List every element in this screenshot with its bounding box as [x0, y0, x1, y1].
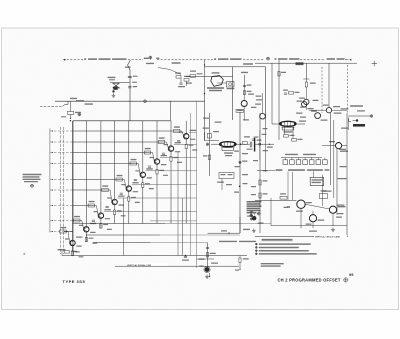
wire supply rail	[348, 115, 370, 117]
capacitor Cs5	[134, 179, 137, 180]
label R97 net	[235, 270, 239, 271]
resistor Re66	[156, 170, 164, 175]
wire tap 4	[50, 163, 140, 174]
transistor Q150	[302, 102, 307, 107]
supply dark tag	[353, 124, 365, 127]
wire drop	[305, 87, 307, 99]
wire vertical x279	[278, 60, 280, 140]
card upper rail	[271, 225, 347, 227]
wire long vertical x190	[190, 113, 192, 256]
transistor Q64	[126, 186, 131, 191]
wire mid vertical x123	[123, 198, 125, 256]
network input term	[58, 249, 78, 256]
label mid texts	[203, 118, 222, 133]
node dark blob	[250, 214, 253, 220]
wire rail y223	[73, 223, 271, 225]
stray mark	[24, 253, 26, 254]
wire y144 onward	[255, 143, 274, 145]
deflection bar	[254, 138, 255, 152]
ground gnd2	[70, 114, 72, 121]
wire collector column 3	[100, 121, 102, 213]
resistor R149	[278, 72, 286, 77]
wire bias branch	[110, 82, 130, 84]
node ring x240a	[239, 161, 241, 163]
note line 4	[255, 253, 316, 255]
resistor R68	[173, 126, 180, 132]
note line 3	[255, 250, 308, 252]
wire rail y235	[86, 234, 240, 236]
node dark junction	[353, 119, 359, 121]
node supply end	[370, 115, 373, 118]
wire emitter drop 8	[170, 152, 172, 224]
wire q330 tie	[322, 145, 347, 147]
transistor Q66 leads	[155, 159, 158, 164]
resistor R95	[206, 253, 215, 258]
wire rail y221	[150, 220, 197, 222]
wire decoupling tie	[158, 68, 181, 75]
wire tap 1	[50, 130, 183, 135]
wire q cluster ties	[305, 204, 333, 228]
label CH2 PROGRAMMED OFFSET	[278, 277, 348, 282]
wire collector column 4	[114, 121, 116, 199]
wire emitter drop 2	[85, 232, 87, 242]
wire collector column 7	[156, 121, 158, 159]
transistor Q63 leads	[113, 200, 116, 205]
label gate feed block	[247, 201, 262, 213]
wire rail y200	[255, 199, 297, 201]
wire horiz y63 right	[303, 62, 357, 64]
wire mid vertical x182	[182, 198, 184, 256]
wire emitter drop 6	[142, 178, 144, 224]
label polarity row	[276, 169, 330, 171]
bracket mark	[349, 119, 352, 122]
label gate current note	[23, 174, 42, 183]
wire box edge ext	[265, 120, 267, 172]
wire stage out 7	[174, 144, 197, 146]
resistor R341	[280, 193, 287, 199]
wire taps join	[205, 132, 220, 141]
wire stage out 5	[146, 170, 197, 172]
resistor R44	[67, 112, 81, 115]
capacitor Cs2	[92, 220, 95, 221]
resistor Re62	[100, 224, 108, 229]
resistor termination row	[281, 158, 327, 165]
wire stage out 8	[189, 131, 197, 133]
label R40 over branch	[108, 77, 116, 81]
wire stage out 3	[117, 197, 196, 199]
wire wafer tie	[217, 82, 226, 84]
label R42	[85, 103, 94, 104]
ground gnd3	[205, 273, 210, 279]
wire tap 6	[50, 189, 112, 201]
wire q163 ties	[306, 105, 347, 111]
resistor Re60	[71, 251, 79, 256]
transistor Q67	[168, 146, 173, 151]
delay driver T301	[280, 121, 297, 130]
wire T301 leads	[272, 123, 305, 125]
resistor R65	[130, 159, 137, 165]
node circled ref	[31, 184, 34, 187]
wire drop to cluster	[70, 101, 72, 111]
label T150 texts	[323, 149, 347, 192]
wire drop x292	[292, 172, 294, 200]
wire tap 3	[50, 152, 154, 161]
label top x244	[241, 72, 248, 73]
resistor R67	[158, 137, 165, 143]
label row values	[285, 154, 316, 155]
resistor R40B	[184, 76, 190, 81]
wire emitter drop 1	[72, 246, 74, 256]
resistor R61	[74, 216, 81, 222]
label Q346	[306, 220, 325, 225]
transistor Q65 leads	[141, 172, 144, 177]
node ring right	[259, 130, 261, 160]
wire emitter drop 5	[128, 192, 130, 224]
label R347	[336, 217, 342, 218]
wire long vertical x240	[239, 112, 241, 233]
bracket under T201	[221, 148, 234, 157]
transistor Q346	[309, 215, 316, 222]
wire emitter drop 7	[156, 165, 158, 224]
capacitor C149	[283, 90, 288, 95]
transistor Q61	[84, 227, 89, 232]
label SIGNAL PICKOFF	[275, 58, 300, 60]
capacitor C96 electrolytic	[204, 266, 210, 272]
ground gnd q347	[331, 228, 335, 232]
resistor R306	[292, 139, 303, 142]
label Q60 value	[65, 237, 84, 258]
label vertical circuit card	[314, 235, 347, 239]
transistor Q347	[329, 206, 336, 213]
resistor R60	[60, 227, 66, 233]
transistor Q61 leads	[85, 227, 88, 232]
box ladder top edge	[73, 120, 171, 122]
note line 2	[255, 246, 298, 248]
card boundary bottom	[255, 235, 348, 237]
diode pair D40	[113, 83, 120, 88]
wire vertical x209	[209, 113, 211, 176]
resistor R151	[289, 92, 300, 95]
transistor Q63	[112, 199, 117, 204]
wire emitter drop 4	[114, 205, 116, 224]
delay line box right	[265, 67, 267, 120]
label EDGE CURRENT SELECTOR	[84, 58, 127, 60]
wire collector column 1	[72, 121, 74, 240]
svg-text:9⁄5: 9⁄5	[349, 273, 353, 277]
wire stage out 6	[160, 157, 197, 159]
resistor R255	[259, 180, 268, 185]
label T301	[284, 131, 293, 132]
label mid y145	[257, 134, 273, 148]
label Q160	[299, 98, 306, 108]
wire dashed segment 3	[157, 59, 213, 61]
label Q347	[338, 206, 346, 214]
label Q310	[311, 111, 328, 121]
capacitor C255 electrolytic	[252, 213, 256, 220]
wire bias column x178	[177, 152, 179, 256]
capacitor Cs7	[162, 153, 165, 154]
wire rail y233	[208, 233, 241, 234]
capacitor C31	[128, 86, 137, 88]
ground gnd4	[252, 229, 256, 233]
resistor R256	[259, 193, 268, 198]
label OFFSET AMPLIFIER	[214, 58, 242, 60]
wire tap 5	[50, 179, 126, 188]
wire stub	[181, 78, 187, 86]
wire supply drop	[341, 118, 349, 131]
box ladder bottom edge	[62, 255, 247, 257]
capacitor C344	[284, 207, 291, 209]
wire collector x306	[305, 63, 307, 79]
label R150 tag	[296, 62, 304, 65]
label C347B	[337, 205, 345, 206]
svg-text:TYPE 3S5: TYPE 3S5	[63, 279, 86, 284]
node dark dot	[112, 90, 114, 92]
wire branch y259	[197, 258, 215, 260]
label Q345	[296, 202, 312, 212]
delay driver T201	[220, 142, 237, 147]
shield dashed line 2	[63, 127, 65, 254]
capacitor Cs6	[148, 166, 151, 167]
transistor Q68	[184, 134, 189, 139]
resistor R66	[144, 148, 151, 154]
label x240 pair	[234, 151, 248, 193]
relay box K145	[227, 82, 235, 90]
resistor Re64	[128, 197, 136, 202]
wire input bracket	[49, 129, 51, 233]
transistor Q65	[140, 172, 145, 177]
wire dashed segment 4	[243, 59, 265, 61]
resistor Re65	[142, 183, 150, 188]
node test point	[267, 57, 270, 60]
network C159 box	[219, 173, 234, 191]
wire lower rail	[115, 265, 239, 267]
label Q65 value	[135, 168, 154, 189]
box ladder left edge	[72, 121, 74, 256]
label bottom cluster	[199, 259, 219, 267]
label Q66 value	[150, 155, 169, 176]
wire drop q345	[300, 208, 302, 228]
wire collector column 6	[142, 121, 144, 172]
wire feed x272	[271, 63, 273, 124]
label R41	[190, 71, 196, 72]
transistor Q62 leads	[99, 213, 102, 218]
see parts list	[261, 263, 284, 267]
wire feed y76	[186, 73, 233, 77]
wire dashed segment 2	[128, 59, 143, 61]
resistor R145	[243, 91, 251, 95]
wire vertical x204	[204, 60, 206, 141]
transistor Q145	[241, 101, 247, 107]
wire riser x173	[170, 101, 172, 121]
label Q330	[329, 141, 348, 152]
resistor Re63	[114, 210, 122, 215]
label net44	[61, 116, 66, 117]
wire dashed segment 5	[300, 59, 325, 61]
transistor Q148	[260, 113, 266, 119]
transistor Q62	[98, 213, 103, 218]
node dot x240b	[239, 186, 241, 188]
wire collector column 9	[185, 121, 187, 133]
wire dash dot feed	[40, 101, 68, 106]
label Q64 value	[121, 182, 140, 203]
registration mark	[372, 61, 378, 66]
svg-text:CH 2 PROGRAMMED OFFSET: CH 2 PROGRAMMED OFFSET	[278, 277, 341, 282]
wire T201 left lead	[206, 134, 219, 146]
wire stage out 2	[104, 211, 197, 213]
label Q67 value	[164, 142, 183, 163]
label Q62 value	[93, 209, 112, 230]
wire em ties	[243, 88, 245, 120]
capacitor C205	[247, 142, 253, 150]
note line 1	[255, 243, 310, 245]
resistor Re61	[85, 237, 93, 242]
wire polarity feed	[257, 170, 314, 200]
wire vertical from selector	[128, 60, 131, 121]
wire collector column 8	[170, 121, 172, 146]
transistor Q66	[154, 159, 159, 164]
label decoupling	[172, 62, 181, 63]
wire horiz y66	[205, 66, 266, 68]
label left col	[247, 186, 264, 224]
label Q63 value	[107, 196, 126, 217]
wire horiz y63	[255, 62, 303, 64]
resistor R62	[88, 201, 95, 207]
resistor R97	[239, 256, 249, 263]
capacitor C145	[243, 85, 252, 87]
label right of T301	[299, 117, 306, 122]
wire tap 9	[50, 231, 73, 242]
capacitor C30	[128, 76, 138, 78]
resistor Re67	[170, 157, 178, 162]
ground gnd1	[112, 93, 116, 97]
note important	[219, 241, 256, 242]
wire shield dashed x347	[347, 65, 349, 113]
label delay line	[243, 63, 253, 65]
card boundary right	[346, 113, 348, 236]
node ring x258	[257, 212, 260, 215]
svg-text:VERTICAL SIGNAL LINE: VERTICAL SIGNAL LINE	[127, 264, 152, 267]
shield dashed line 1	[60, 127, 62, 254]
label TYPE	[63, 279, 86, 284]
transistor Q64 leads	[127, 186, 130, 191]
capacitor C345 box	[320, 190, 328, 198]
delay line box left	[232, 67, 234, 120]
transistor Q67 leads	[169, 146, 172, 151]
capacitor C240	[252, 139, 255, 140]
label cal	[221, 229, 250, 232]
node junction ring	[144, 100, 147, 103]
wire card left edge	[270, 198, 272, 226]
wire branch x322	[322, 175, 324, 206]
wire vertical x322 dashed	[321, 67, 323, 113]
wire collector column 5	[128, 121, 130, 186]
resistor R64	[116, 175, 123, 181]
resistor R205	[242, 136, 250, 144]
wire tap 2	[50, 141, 168, 147]
resistor R305	[284, 135, 295, 138]
label under box	[217, 182, 232, 186]
wire collector x329	[328, 63, 330, 107]
label Q150	[296, 101, 314, 114]
transistor Q60	[70, 240, 75, 245]
label +12V	[125, 67, 131, 68]
resistor R145 box	[236, 109, 244, 112]
wire drop x207	[207, 243, 209, 271]
label SIGNAL OUT	[327, 58, 345, 60]
wire stage out 4	[132, 184, 197, 186]
transistor Q163	[326, 108, 331, 113]
wire x262 cluster	[255, 93, 263, 113]
wire verticals right	[331, 113, 337, 215]
resistor R160	[303, 79, 316, 87]
label Q68 value	[179, 130, 198, 151]
capacitor Cs4	[120, 193, 123, 194]
wire emitter drop 9	[185, 139, 187, 223]
wire long vertical x196	[196, 101, 198, 268]
wire arrow end	[345, 59, 351, 61]
label under q346	[309, 231, 317, 232]
transistor Q310	[315, 113, 321, 119]
node pickoff cluster	[144, 56, 160, 64]
wire T201 right lead	[236, 143, 250, 145]
wire bus y101	[55, 100, 205, 102]
label R30	[132, 82, 137, 83]
capacitor C95	[206, 248, 209, 249]
wire drops T301	[285, 127, 294, 138]
transistor Q160	[304, 99, 309, 104]
transistor Q68 leads	[184, 134, 187, 139]
wire dashed signal path left	[63, 59, 83, 61]
transistor Q330	[336, 143, 342, 149]
transistor Q345	[297, 200, 305, 208]
resistor Re68	[185, 144, 193, 149]
relay box K347	[310, 177, 324, 185]
wire emitter drop 3	[100, 219, 102, 229]
node ring above box	[78, 113, 81, 116]
label sheet number	[349, 273, 353, 277]
resistor R63	[102, 185, 109, 191]
notes heading	[262, 239, 293, 241]
capacitor Cs8	[177, 141, 180, 142]
wire drop	[239, 262, 241, 270]
wire x240 lower	[239, 217, 241, 233]
resistor R210	[203, 155, 211, 160]
switch wafer S145	[207, 72, 224, 91]
svg-text:VERTICAL CIRCUIT CARD: VERTICAL CIRCUIT CARD	[315, 235, 341, 238]
transistor Q60 leads	[71, 241, 74, 246]
wire tap 7	[50, 205, 98, 215]
wire collector column 2	[85, 121, 87, 227]
label +125V	[341, 105, 366, 111]
label Q163	[313, 100, 342, 114]
capacitor C90	[182, 255, 189, 261]
capacitor Cs3	[106, 207, 109, 208]
label x260 col	[253, 128, 268, 171]
wire vertical x244	[244, 75, 246, 88]
resistor R40A	[175, 73, 181, 79]
label vertical signal line	[126, 263, 168, 267]
label Q145	[243, 94, 262, 121]
inductor L40	[70, 98, 84, 101]
wire rail y242	[93, 242, 208, 244]
varistor dark blob	[113, 87, 117, 90]
diode D250	[250, 212, 254, 216]
label Q61 value	[79, 223, 98, 244]
capacitor C40	[178, 83, 192, 88]
wire vertical x260	[259, 113, 261, 233]
wire tap 8	[50, 220, 83, 228]
